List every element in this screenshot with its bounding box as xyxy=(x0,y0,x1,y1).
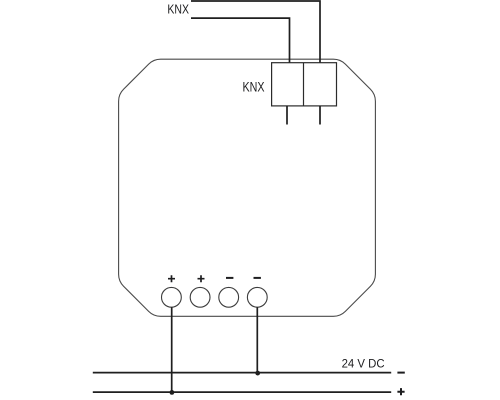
device outline xyxy=(119,59,376,316)
svg-text:KNX: KNX xyxy=(167,2,189,17)
KNX connector block divider xyxy=(303,63,305,106)
wire from terminal 1 to + bus xyxy=(171,307,173,392)
label - (minus bus) xyxy=(397,372,404,374)
bus line plus xyxy=(93,391,391,393)
bus line minus (24 V DC) xyxy=(93,372,391,374)
label + (terminal 2) xyxy=(198,275,205,282)
KNX connector block xyxy=(272,63,337,106)
wire KNX line 1 (top) xyxy=(191,1,320,63)
junction dot on + bus xyxy=(170,390,175,395)
label - (terminal 3) xyxy=(226,277,233,279)
wire from terminal 4 to - bus xyxy=(256,307,258,372)
junction dot on - bus xyxy=(255,371,260,376)
terminal circle 4 (-) xyxy=(247,287,267,307)
wire stub below block right xyxy=(319,106,321,125)
terminal circle 3 (-) xyxy=(219,287,239,307)
label + (plus bus) xyxy=(397,388,404,395)
label - (terminal 4) xyxy=(254,277,261,279)
svg-text:KNX: KNX xyxy=(243,78,265,94)
label + (terminal 1) xyxy=(168,275,175,282)
terminal circle 2 (+) xyxy=(190,287,210,307)
svg-text:24 V DC: 24 V DC xyxy=(342,356,385,370)
wire KNX line 2 xyxy=(191,18,290,63)
terminal circle 1 (+) xyxy=(162,287,182,307)
wire stub below block left xyxy=(286,106,288,125)
